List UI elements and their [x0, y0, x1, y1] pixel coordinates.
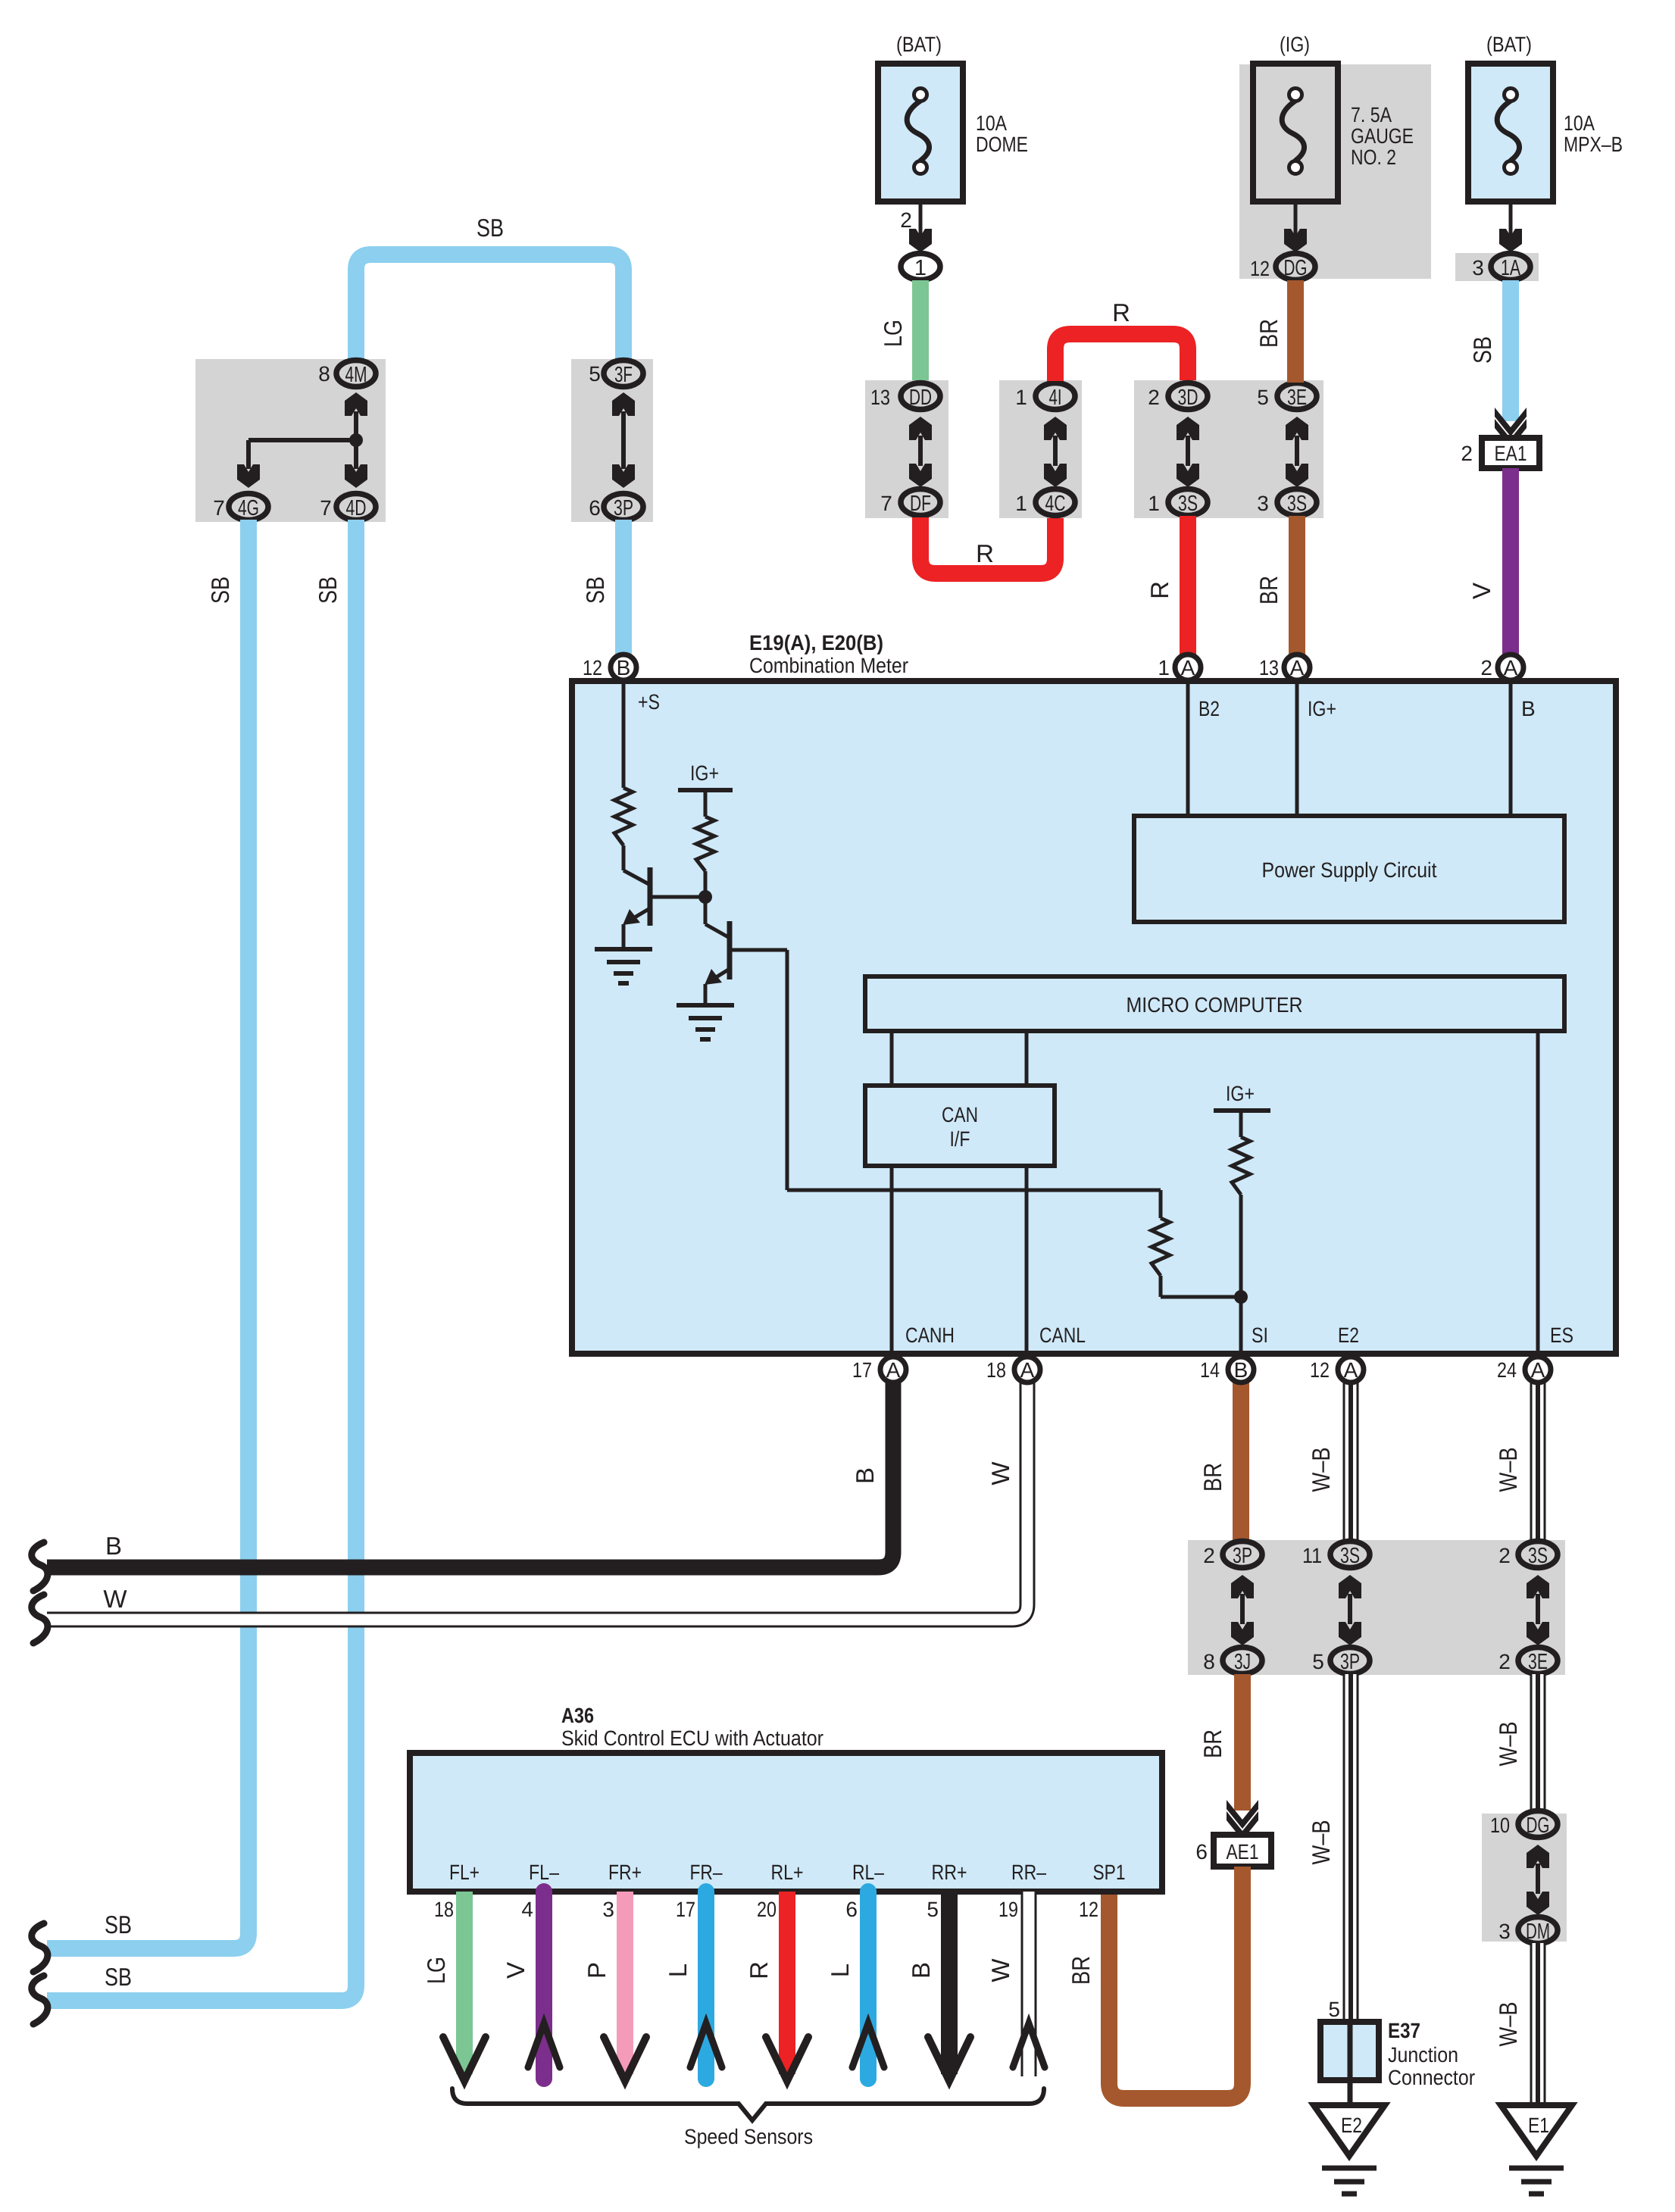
svg-text:Speed Sensors: Speed Sensors	[684, 2125, 813, 2148]
svg-text:W–B: W–B	[1307, 1448, 1335, 1492]
wire R4 to SI pin	[1239, 1195, 1243, 1357]
wire SB 4D down-left to page edge	[47, 520, 356, 2001]
svg-text:B: B	[617, 656, 631, 680]
svg-text:3F: 3F	[614, 363, 633, 387]
svg-text:BR: BR	[1255, 319, 1283, 348]
wire R 4I to 3D	[1055, 334, 1188, 381]
connector DF	[901, 489, 940, 516]
svg-text:4G: 4G	[238, 496, 259, 520]
ground of Q2	[677, 1003, 734, 1008]
svg-text:V: V	[1467, 583, 1495, 599]
arrow to speed sensor	[604, 2037, 646, 2081]
connector EA1	[1482, 438, 1539, 468]
svg-text:4C: 4C	[1045, 492, 1066, 516]
svg-text:+S: +S	[638, 690, 660, 714]
connector 3S	[1518, 1542, 1558, 1568]
svg-text:7: 7	[320, 496, 332, 520]
svg-text:IG+: IG+	[1226, 1082, 1255, 1105]
wire BR 3S to meter pin 13	[1289, 516, 1305, 656]
svg-text:NO. 2: NO. 2	[1351, 145, 1396, 169]
svg-text:W: W	[986, 1958, 1014, 1982]
svg-text:B: B	[1234, 1358, 1248, 1382]
svg-text:DD: DD	[909, 386, 932, 410]
meter pin 14 B	[1228, 1357, 1254, 1382]
connector DG	[1518, 1811, 1558, 1838]
meter pin 1 A	[1175, 655, 1201, 680]
svg-text:B: B	[907, 1962, 935, 1979]
svg-text:3E: 3E	[1287, 386, 1307, 410]
svg-text:GAUGE: GAUGE	[1351, 124, 1414, 148]
micro computer box	[865, 976, 1564, 1031]
ground E2	[1314, 2105, 1385, 2156]
svg-text:RL+: RL+	[771, 1861, 804, 1884]
svg-text:W–B: W–B	[1494, 2002, 1522, 2047]
svg-text:A: A	[1290, 656, 1305, 680]
svg-text:1: 1	[1015, 492, 1027, 515]
svg-text:R: R	[745, 1961, 773, 1979]
svg-text:SI: SI	[1252, 1323, 1268, 1347]
svg-text:3: 3	[1257, 492, 1269, 515]
svg-text:(BAT): (BAT)	[896, 33, 942, 56]
wire R 3S to meter pin 1	[1180, 516, 1196, 656]
svg-text:7. 5A: 7. 5A	[1351, 103, 1392, 127]
svg-text:Connector: Connector	[1388, 2066, 1475, 2089]
svg-text:1: 1	[914, 256, 927, 280]
wire IG+ pin to power supply	[1295, 681, 1299, 816]
wire W-B 3E to DG	[1530, 1674, 1546, 1814]
wire B pin17 to page edge	[47, 1382, 893, 1567]
svg-text:W–B: W–B	[1494, 1448, 1522, 1492]
svg-text:1: 1	[1158, 656, 1170, 680]
chevrons into EA1	[1495, 408, 1527, 436]
gray connector block 3D/3S/3E/3S	[1134, 380, 1323, 518]
svg-text:FR+: FR+	[608, 1861, 642, 1884]
page edge curl W	[32, 1595, 48, 1643]
svg-text:CANL: CANL	[1039, 1323, 1086, 1347]
svg-text:3J: 3J	[1234, 1650, 1251, 1674]
wire R3 to SI node	[1159, 1276, 1163, 1297]
node base junction	[704, 871, 708, 924]
svg-text:5: 5	[927, 1898, 939, 1921]
svg-text:12: 12	[1079, 1898, 1098, 1921]
wire BR DG to 3E	[1287, 280, 1304, 383]
svg-text:A: A	[1181, 656, 1195, 680]
wire BR pin14 to 3P	[1233, 1382, 1249, 1542]
ground of Q1	[595, 947, 652, 951]
wire W pin18 to page edge	[47, 1382, 1027, 1620]
svg-text:L: L	[826, 1964, 854, 1977]
svg-text:E19(A), E20(B): E19(A), E20(B)	[749, 631, 883, 655]
svg-text:13: 13	[1259, 656, 1279, 680]
svg-text:A: A	[1020, 1358, 1035, 1382]
svg-text:3P: 3P	[1233, 1544, 1252, 1568]
wire BR AE1 to SP1	[1109, 1867, 1242, 2098]
connector 3P	[604, 494, 643, 520]
junction arrows 3F-3P	[621, 411, 626, 469]
svg-text:2: 2	[1498, 1650, 1511, 1673]
svg-text:SP1: SP1	[1093, 1861, 1126, 1884]
svg-text:8: 8	[1203, 1650, 1215, 1673]
connector DM	[1518, 1917, 1558, 1944]
svg-text:Combination Meter: Combination Meter	[749, 654, 908, 677]
svg-text:4M: 4M	[345, 363, 367, 387]
svg-text:20: 20	[757, 1898, 777, 1921]
gray connector block 3P/3J 3S/3P 3S/3E	[1188, 1540, 1565, 1675]
svg-text:10A: 10A	[976, 111, 1007, 135]
svg-text:V: V	[502, 1962, 530, 1979]
svg-text:(IG): (IG)	[1280, 33, 1310, 56]
svg-text:12: 12	[583, 656, 602, 680]
connector 3S	[1168, 489, 1208, 516]
wire micro to CAN I/F left	[890, 1031, 894, 1086]
svg-text:3D: 3D	[1178, 386, 1198, 410]
svg-text:A36: A36	[561, 1704, 594, 1727]
connector 1	[901, 254, 940, 280]
svg-text:4I: 4I	[1049, 386, 1062, 410]
arrowhead into connector 1A	[1499, 229, 1522, 252]
resistor R1	[614, 788, 633, 845]
svg-text:3S: 3S	[1287, 492, 1307, 516]
wire ES micro to pin 24	[1536, 1031, 1540, 1357]
svg-text:FL+: FL+	[449, 1861, 480, 1884]
svg-text:R: R	[1112, 298, 1130, 326]
wire R DF to 4C	[920, 517, 1055, 573]
wire SB 4G down-left to page edge	[47, 520, 248, 1948]
svg-text:4: 4	[521, 1898, 533, 1921]
gray connector block 4I/4C	[999, 380, 1082, 518]
resistor R3	[1152, 1218, 1170, 1276]
arrow from speed sensor	[852, 2023, 884, 2067]
junction arrows	[1348, 1594, 1352, 1624]
svg-text:3S: 3S	[1340, 1544, 1360, 1568]
svg-text:3S: 3S	[1178, 492, 1198, 516]
svg-text:SB: SB	[581, 576, 609, 604]
chevrons into AE1	[1227, 1800, 1258, 1829]
svg-text:5: 5	[1328, 1998, 1340, 2021]
svg-text:BR: BR	[1198, 1729, 1227, 1758]
junction arrows 3D-3S	[1186, 436, 1190, 466]
svg-text:R: R	[1145, 581, 1173, 599]
svg-text:I/F: I/F	[950, 1127, 970, 1151]
wire B2 pin to power supply	[1186, 681, 1190, 816]
svg-text:11: 11	[1302, 1544, 1322, 1567]
arrow from speed sensor	[1013, 2023, 1045, 2067]
power supply circuit box	[1134, 816, 1564, 922]
wire W speed sensor RR-	[1021, 1892, 1037, 2076]
svg-text:CANH: CANH	[905, 1323, 955, 1347]
svg-text:E2: E2	[1341, 2114, 1362, 2137]
svg-text:RL–: RL–	[852, 1861, 884, 1884]
svg-text:Skid Control ECU with Actuator: Skid Control ECU with Actuator	[561, 1726, 823, 1750]
svg-text:E37: E37	[1388, 2019, 1420, 2042]
svg-text:7: 7	[213, 496, 225, 520]
svg-text:3S: 3S	[1528, 1544, 1548, 1568]
meter pin 13 A	[1284, 655, 1310, 680]
svg-text:3: 3	[602, 1898, 614, 1921]
meter pin 24 A	[1525, 1357, 1551, 1382]
svg-text:2: 2	[900, 208, 912, 232]
svg-text:6: 6	[845, 1898, 858, 1921]
svg-text:3E: 3E	[1528, 1650, 1548, 1674]
connector 3D	[1168, 383, 1208, 410]
meter pin 2 A	[1498, 655, 1523, 680]
CAN I/F box	[865, 1086, 1055, 1166]
svg-text:BR: BR	[1255, 576, 1283, 605]
svg-text:DG: DG	[1284, 256, 1308, 280]
connector 3S	[1277, 489, 1317, 516]
svg-text:FL–: FL–	[529, 1861, 559, 1884]
resistor R4	[1232, 1137, 1250, 1195]
gray panel behind connector 1A	[1455, 253, 1539, 281]
wire V EA1 to meter pin 2	[1502, 468, 1519, 656]
svg-text:MPX–B: MPX–B	[1564, 133, 1623, 156]
connector 3P	[1223, 1542, 1262, 1568]
wire micro to CAN I/F right	[1025, 1031, 1029, 1086]
svg-text:6: 6	[1195, 1840, 1208, 1864]
wire W-B DM to ground E1	[1530, 1943, 1546, 2105]
svg-text:B2: B2	[1198, 697, 1220, 720]
svg-text:W: W	[103, 1585, 127, 1613]
connector 4D	[336, 494, 376, 520]
svg-text:A: A	[1504, 656, 1518, 680]
svg-text:CAN: CAN	[942, 1103, 978, 1126]
svg-text:B: B	[851, 1467, 879, 1484]
svg-text:19: 19	[998, 1898, 1018, 1921]
arrow to speed sensor	[928, 2037, 970, 2081]
gray connector block 3F/3P	[571, 359, 653, 522]
svg-text:W: W	[986, 1461, 1014, 1486]
svg-text:SB: SB	[1468, 336, 1496, 364]
wire V speed sensor FL&#8211;	[536, 1892, 552, 2079]
wire B pin to power supply	[1509, 681, 1513, 816]
svg-text:2: 2	[1461, 442, 1473, 465]
connector 3J	[1223, 1648, 1262, 1674]
svg-text:17: 17	[676, 1898, 695, 1921]
svg-text:B: B	[1521, 697, 1536, 720]
meter pin 17 A	[880, 1357, 906, 1382]
wire Q2 collector to SI resistor	[730, 948, 787, 952]
svg-text:2: 2	[1148, 386, 1160, 409]
svg-text:18: 18	[986, 1358, 1006, 1382]
svg-text:12: 12	[1310, 1358, 1330, 1382]
wire BR 3J to AE1	[1234, 1674, 1251, 1811]
svg-text:10: 10	[1490, 1814, 1510, 1837]
wire +S	[622, 681, 626, 788]
svg-text:IG+: IG+	[1308, 697, 1336, 720]
svg-text:BR: BR	[1198, 1463, 1227, 1492]
wire P speed sensor FR+	[617, 1892, 633, 2074]
arrow from speed sensor	[528, 2023, 560, 2067]
svg-text:RR+: RR+	[932, 1861, 967, 1884]
svg-text:2: 2	[1203, 1544, 1215, 1567]
svg-text:W–B: W–B	[1494, 1722, 1522, 1767]
svg-text:L: L	[664, 1964, 692, 1977]
svg-text:ES: ES	[1550, 1323, 1573, 1347]
svg-text:A: A	[886, 1358, 901, 1382]
wire SB 3P to meter pin 12	[615, 520, 632, 656]
wire SB 1A to EA1	[1502, 280, 1519, 421]
wire LG fuse DOME to DD	[912, 280, 929, 383]
svg-text:DOME: DOME	[976, 133, 1028, 156]
svg-text:LG: LG	[422, 1957, 450, 1984]
svg-text:FR–: FR–	[690, 1861, 723, 1884]
wire R speed sensor RL+	[779, 1892, 795, 2074]
fuse 10A MPX-B (BAT)	[1468, 64, 1553, 202]
svg-text:5: 5	[589, 362, 601, 386]
svg-text:SB: SB	[314, 576, 342, 604]
page edge curl SB	[32, 1923, 48, 1972]
svg-text:P: P	[583, 1962, 611, 1979]
transistor Q2	[705, 924, 730, 938]
wire W-B pin12 to 3S	[1343, 1382, 1359, 1542]
svg-text:4D: 4D	[346, 496, 367, 520]
svg-text:E1: E1	[1528, 2114, 1549, 2137]
svg-text:BR: BR	[1067, 1956, 1095, 1985]
svg-text:SB: SB	[105, 1963, 132, 1991]
gray connector block DD/DF	[865, 380, 948, 518]
skid control ECU box	[410, 1753, 1162, 1892]
svg-text:18: 18	[434, 1898, 454, 1921]
arrowhead into connector DG	[1284, 229, 1307, 252]
svg-text:8: 8	[318, 362, 330, 386]
resistor R2	[696, 817, 714, 871]
svg-text:14: 14	[1200, 1358, 1220, 1382]
IG+ feed (SI)	[1214, 1108, 1270, 1113]
connector DG	[1276, 254, 1315, 280]
arrow from speed sensor	[690, 2023, 722, 2067]
gray connector block 4M/4G/4D	[195, 359, 386, 522]
svg-text:DG: DG	[1527, 1814, 1550, 1838]
wire E37 to ground E2	[1348, 2080, 1353, 2105]
node SI junction	[1234, 1290, 1248, 1304]
combination meter box	[572, 681, 1616, 1354]
svg-text:3P: 3P	[614, 496, 633, 520]
junction arrows 4I-4C	[1053, 436, 1058, 466]
svg-text:1: 1	[1148, 492, 1160, 515]
svg-text:Power Supply Circuit: Power Supply Circuit	[1262, 858, 1437, 882]
connector 4M	[336, 361, 376, 387]
svg-text:2: 2	[1480, 656, 1492, 680]
svg-text:SB: SB	[105, 1911, 132, 1939]
meter pin 12 A	[1338, 1357, 1364, 1382]
connector 4G	[229, 494, 268, 520]
junction arrows	[1240, 1594, 1245, 1624]
arrow to speed sensor	[443, 2037, 486, 2081]
connector 3S	[1330, 1542, 1370, 1568]
svg-text:1A: 1A	[1501, 256, 1520, 280]
svg-text:IG+: IG+	[690, 761, 719, 785]
wire W-B pin24 to 3S	[1530, 1382, 1546, 1542]
svg-text:LG: LG	[879, 320, 907, 347]
svg-text:E2: E2	[1338, 1323, 1359, 1347]
wire L speed sensor RL&#8211;	[860, 1892, 877, 2079]
connector 1A	[1491, 254, 1530, 280]
wire W-B 3P to E37	[1343, 1674, 1359, 2022]
fuse 7.5A GAUGE NO.2 (IG)	[1253, 64, 1338, 202]
wire LG speed sensor FL+	[456, 1892, 473, 2074]
svg-text:3P: 3P	[1340, 1650, 1360, 1674]
arrow to speed sensor	[766, 2037, 808, 2081]
svg-text:6: 6	[589, 496, 601, 520]
svg-text:13: 13	[870, 386, 890, 409]
svg-text:MICRO COMPUTER: MICRO COMPUTER	[1127, 993, 1303, 1017]
svg-text:10A: 10A	[1564, 111, 1595, 135]
connector AE1	[1214, 1835, 1271, 1867]
junction arrows 3E-3S	[1295, 436, 1299, 466]
svg-text:Junction: Junction	[1388, 2043, 1458, 2067]
svg-text:3: 3	[1498, 1920, 1511, 1943]
svg-text:1: 1	[1015, 386, 1027, 409]
ground E1	[1501, 2105, 1572, 2156]
svg-text:SB: SB	[206, 576, 234, 604]
svg-text:B: B	[105, 1532, 122, 1560]
svg-text:3: 3	[1472, 256, 1484, 280]
connector 4C	[1036, 489, 1075, 516]
svg-text:R: R	[976, 539, 994, 567]
svg-text:RR–: RR–	[1011, 1861, 1046, 1884]
connector DD	[901, 383, 940, 410]
svg-text:12: 12	[1250, 257, 1270, 280]
fuse 10A DOME (BAT)	[878, 64, 963, 202]
page edge curl B	[32, 1542, 48, 1591]
svg-text:AE1: AE1	[1227, 1840, 1259, 1864]
wire CANL	[1025, 1166, 1029, 1357]
wire SB 4M to 3F	[356, 255, 623, 361]
svg-text:A: A	[1344, 1358, 1358, 1382]
connector 3P	[1330, 1648, 1370, 1674]
svg-text:2: 2	[1498, 1544, 1511, 1567]
svg-text:24: 24	[1497, 1358, 1517, 1382]
svg-text:(BAT): (BAT)	[1486, 33, 1532, 56]
junction connector E37	[1320, 2022, 1379, 2080]
svg-text:EA1: EA1	[1495, 442, 1527, 465]
IG+ feed	[678, 788, 733, 792]
junction arrows DD-DF	[918, 436, 923, 466]
junction arrows DG-DM	[1536, 1864, 1540, 1894]
gray connector block DG/DM	[1482, 1814, 1567, 1942]
svg-text:5: 5	[1257, 386, 1269, 409]
junction arrows	[1536, 1594, 1540, 1624]
meter pin 18 A	[1014, 1357, 1040, 1382]
branch wire 4M to 4G and 4D	[354, 411, 358, 469]
connector 3E	[1277, 383, 1317, 410]
svg-text:5: 5	[1312, 1650, 1324, 1673]
wire B speed sensor RR+	[941, 1892, 958, 2074]
page edge curl SB	[32, 1976, 48, 2024]
svg-text:DF: DF	[910, 492, 931, 516]
svg-text:17: 17	[852, 1358, 872, 1382]
wire L speed sensor FR&#8211;	[698, 1892, 714, 2079]
svg-text:SB: SB	[477, 214, 504, 242]
bracket Speed Sensors	[452, 2089, 1044, 2120]
connector 3F	[604, 361, 643, 387]
transistor Q1	[622, 845, 626, 870]
svg-text:W–B: W–B	[1307, 1820, 1335, 1865]
connector 4I	[1036, 383, 1075, 410]
meter pin 12 B	[611, 655, 636, 680]
connector 3E	[1518, 1648, 1558, 1674]
svg-text:DM: DM	[1526, 1920, 1550, 1944]
svg-text:A: A	[1531, 1358, 1545, 1382]
gray panel behind fuse GAUGE NO.2	[1239, 64, 1431, 279]
arrowhead into connector 1	[909, 229, 932, 252]
wire CANH	[890, 1166, 894, 1357]
svg-text:7: 7	[880, 492, 892, 515]
